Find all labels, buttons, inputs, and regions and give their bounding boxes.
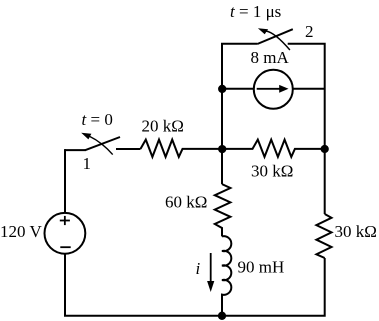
svg-text:8 mA: 8 mA: [251, 48, 290, 67]
svg-text:60 kΩ: 60 kΩ: [165, 193, 207, 212]
svg-text:1: 1: [83, 154, 92, 173]
svg-text:30 kΩ: 30 kΩ: [335, 222, 377, 241]
svg-text:20 kΩ: 20 kΩ: [142, 117, 184, 136]
svg-text:t = 1 μs: t = 1 μs: [230, 2, 281, 21]
svg-text:2: 2: [305, 22, 314, 41]
svg-text:t = 0: t = 0: [82, 110, 113, 129]
svg-text:i: i: [196, 259, 201, 278]
svg-text:120 V: 120 V: [0, 222, 42, 241]
svg-text:90 mH: 90 mH: [238, 258, 285, 277]
svg-text:30 kΩ: 30 kΩ: [251, 162, 293, 181]
